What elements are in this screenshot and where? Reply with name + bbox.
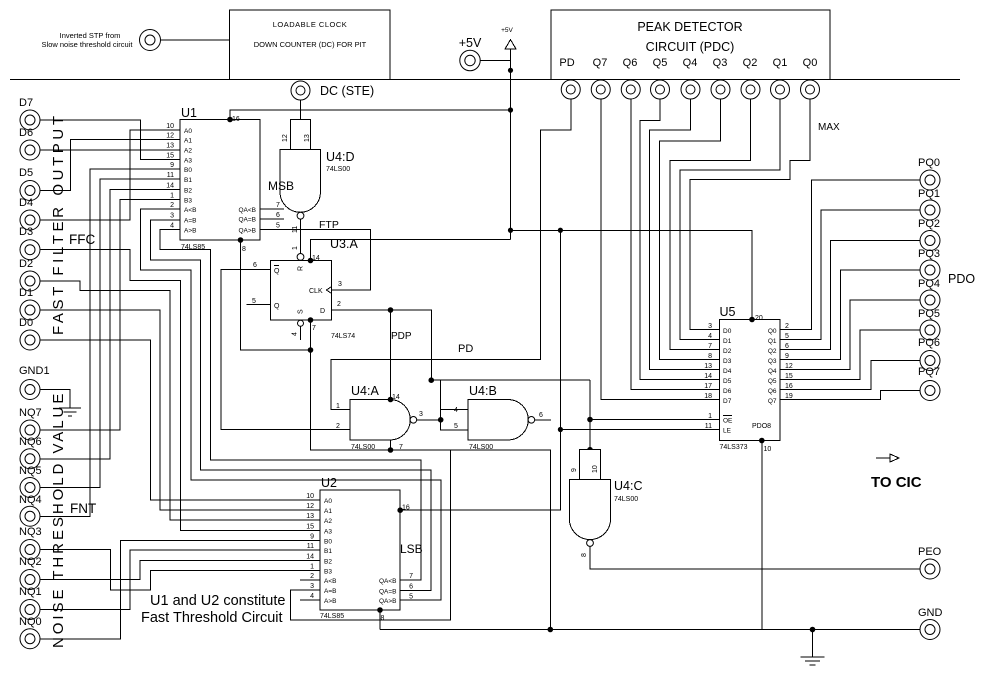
svg-text:DOWN COUNTER (DC) FOR PIT: DOWN COUNTER (DC) FOR PIT [254, 40, 367, 49]
junction dot LE branch [558, 427, 563, 432]
svg-text:74LS00: 74LS00 [469, 444, 493, 451]
connector PQ5 [918, 308, 940, 340]
svg-text:B2: B2 [184, 188, 192, 195]
gate U4:D NAND (vertical) [268, 120, 354, 220]
svg-text:2: 2 [170, 202, 174, 209]
svg-text:FTP: FTP [319, 219, 339, 231]
junction dot PDP top of pin4 riser [428, 377, 434, 383]
wire DC(STE) down to U4:D pins [300, 100, 302, 120]
wire D5 to U1 A1 [41, 140, 181, 191]
svg-text:PQ5: PQ5 [918, 308, 940, 320]
connector PQ1 [918, 188, 940, 220]
connector NQ4 [19, 494, 42, 526]
gate U4:B NAND [454, 384, 535, 451]
svg-text:+5V: +5V [501, 27, 513, 34]
svg-text:S: S [298, 309, 305, 314]
svg-text:13: 13 [304, 134, 311, 142]
pin numbers U2 right [409, 573, 413, 601]
wire D4 to U1 A0 [41, 130, 181, 220]
connector PD [561, 80, 580, 99]
power symbol +5V triangle [501, 27, 516, 49]
svg-text:2: 2 [785, 323, 789, 330]
pin numbers U1 left [166, 123, 174, 230]
wire U4:A pin7 to GND rail [390, 440, 392, 450]
wire U4:C output to PEO [590, 546, 920, 569]
svg-text:U1: U1 [181, 106, 197, 120]
svg-text:QA<B: QA<B [379, 578, 397, 585]
svg-text:4: 4 [170, 223, 174, 230]
svg-text:A>B: A>B [184, 228, 196, 235]
svg-text:4: 4 [708, 333, 712, 340]
wire OE line to U5 [590, 419, 720, 421]
svg-text:74LS00: 74LS00 [326, 166, 350, 173]
junction dot PDP at D row [388, 307, 394, 313]
svg-text:QA>B: QA>B [238, 228, 256, 235]
svg-text:6: 6 [253, 262, 257, 269]
svg-text:D2: D2 [723, 348, 732, 355]
svg-text:10: 10 [306, 493, 314, 500]
IC U2 74LS85 box [320, 476, 400, 620]
svg-text:A3: A3 [184, 158, 192, 165]
IC U1 74LS85 box [180, 106, 260, 251]
wire U5 Q5 to PQ5 [780, 330, 920, 380]
svg-text:PDP: PDP [391, 331, 412, 342]
svg-text:6: 6 [409, 584, 413, 591]
svg-text:LOADABLE CLOCK: LOADABLE CLOCK [273, 20, 348, 29]
connector +5V [459, 36, 482, 71]
junction dot U4:A output at U4:B pin5 riser [438, 417, 444, 423]
svg-text:D2: D2 [19, 258, 33, 270]
svg-text:D1: D1 [19, 287, 33, 299]
svg-text:A>B: A>B [324, 598, 336, 605]
svg-text:D3: D3 [723, 358, 732, 365]
connector GND1 [19, 365, 50, 400]
svg-text:A2: A2 [324, 518, 332, 525]
wire Q2 to U5 D2 [670, 99, 751, 350]
junction dot rail at x=560.4 [558, 228, 563, 233]
svg-text:NQ6: NQ6 [19, 436, 42, 448]
svg-text:A<B: A<B [324, 578, 336, 585]
wire D1 to U2 A1 [41, 310, 321, 510]
svg-text:DC (STE): DC (STE) [320, 84, 374, 98]
svg-text:5: 5 [409, 594, 413, 601]
wire +5V rail y=230.25 to U5 pin 20 [511, 230, 753, 319]
connector D6 [19, 127, 40, 160]
wire NQ5 to U1 B1 [41, 179, 181, 488]
svg-text:12: 12 [785, 363, 793, 370]
wire U5 Q1 to PQ1 [780, 210, 920, 340]
svg-text:1: 1 [292, 246, 299, 250]
svg-text:PD: PD [559, 57, 574, 69]
svg-text:QA<B: QA<B [238, 207, 256, 214]
svg-text:A1: A1 [184, 138, 192, 145]
wire U4:D pin 11 to U3:A R [292, 219, 301, 253]
svg-text:9: 9 [785, 353, 789, 360]
svg-text:8: 8 [381, 615, 385, 622]
svg-text:D7: D7 [19, 97, 33, 109]
svg-text:NQ7: NQ7 [19, 407, 42, 419]
connector NQ2 [19, 556, 42, 590]
connector GND [918, 607, 943, 640]
connector DC (STE) [291, 81, 374, 100]
svg-text:Q2: Q2 [743, 57, 758, 69]
stub U4:B output pin 6 [535, 412, 551, 420]
connector D4 [19, 197, 40, 230]
svg-text:74LS74: 74LS74 [331, 333, 355, 340]
svg-text:NQ4: NQ4 [19, 494, 42, 506]
svg-text:PQ1: PQ1 [918, 188, 940, 200]
wire Q1 to U5 D1 [680, 99, 780, 340]
wire U5 Q2 to PQ2 [780, 241, 920, 350]
pin 16 U2 dot and label [397, 505, 409, 514]
pin 14 U3:A dot [308, 255, 320, 263]
wire U5 Q3 to PQ3 [780, 270, 920, 360]
svg-text:U3.A: U3.A [330, 237, 358, 251]
svg-text:74LS85: 74LS85 [320, 613, 344, 620]
wire PDP net: U3:A D row with branches [331, 310, 590, 430]
svg-text:A0: A0 [184, 128, 192, 135]
svg-text:15: 15 [785, 373, 793, 380]
svg-text:D6: D6 [723, 388, 732, 395]
svg-text:Q5: Q5 [653, 57, 668, 69]
svg-text:10: 10 [764, 446, 772, 453]
svg-text:D6: D6 [19, 127, 33, 139]
wire Q7 to U5 D7 [601, 99, 720, 400]
svg-text:PQ6: PQ6 [918, 337, 940, 349]
connector PQ0 [918, 157, 940, 190]
svg-text:FNT: FNT [70, 501, 96, 516]
svg-text:1: 1 [310, 564, 314, 571]
svg-text:MSB: MSB [268, 179, 294, 193]
svg-text:NQ3: NQ3 [19, 526, 42, 538]
svg-text:6: 6 [276, 212, 280, 219]
wire +5V branch x=560.4 down to U2 pin16 with LE junction [400, 230, 560, 510]
svg-text:15: 15 [166, 153, 174, 160]
connector STP (Inverted STP input) [42, 30, 161, 51]
pin 16 U1 dot and label [227, 116, 240, 123]
wire U4:C input riser from PDP net [589, 380, 591, 450]
svg-text:Q7: Q7 [593, 57, 608, 69]
wire VCC rail y=110 from U1 pin16 to +5V [230, 110, 511, 120]
svg-text:14: 14 [312, 255, 320, 262]
svg-text:Q5: Q5 [768, 378, 777, 385]
connector PEO [918, 546, 942, 579]
svg-text:9: 9 [571, 468, 578, 472]
svg-text:PQ7: PQ7 [918, 366, 940, 378]
svg-text:6: 6 [539, 412, 543, 419]
svg-text:A3: A3 [324, 529, 332, 536]
svg-text:D1: D1 [723, 338, 732, 345]
svg-text:74LS00: 74LS00 [614, 496, 638, 503]
svg-text:6: 6 [785, 343, 789, 350]
svg-text:NQ1: NQ1 [19, 586, 42, 598]
svg-text:13: 13 [704, 363, 712, 370]
svg-text:PD: PD [458, 343, 473, 355]
svg-text:PDO8: PDO8 [752, 423, 771, 430]
svg-text:A=B: A=B [324, 588, 336, 595]
svg-text:1: 1 [336, 403, 340, 410]
connector Q6 [621, 80, 640, 99]
wire LE line to U5 [560, 429, 719, 431]
svg-text:B0: B0 [184, 167, 192, 174]
svg-text:QA>B: QA>B [379, 598, 397, 605]
wire D3 to U2 A3 [41, 250, 321, 531]
svg-text:4: 4 [292, 332, 299, 336]
svg-text:Q1: Q1 [768, 338, 777, 345]
svg-text:5: 5 [276, 223, 280, 230]
svg-text:U5: U5 [720, 305, 736, 319]
svg-text:Q6: Q6 [768, 388, 777, 395]
svg-text:3: 3 [419, 411, 423, 418]
svg-text:5: 5 [454, 423, 458, 430]
ground symbol at x=812.5 [801, 627, 825, 665]
wire cascade U1 A=B to U2 QA=B [150, 220, 431, 591]
svg-text:PEO: PEO [918, 546, 942, 558]
svg-text:3: 3 [310, 583, 314, 590]
svg-text:9: 9 [170, 162, 174, 169]
svg-text:A1: A1 [324, 508, 332, 515]
junction dot GND descent on GND rail [548, 627, 554, 633]
svg-text:7: 7 [312, 325, 316, 332]
svg-text:2: 2 [336, 423, 340, 430]
junction dot U3:A pin7 at y=350 [308, 347, 314, 353]
svg-text:PQ2: PQ2 [918, 218, 940, 230]
svg-text:PDO: PDO [948, 272, 975, 286]
gate U4:A NAND [336, 384, 423, 451]
svg-text:16: 16 [785, 383, 793, 390]
connector D5 [19, 167, 40, 201]
wire GND rail to GND connector [380, 629, 920, 631]
svg-text:14: 14 [166, 183, 174, 190]
svg-text:D0: D0 [19, 317, 33, 329]
svg-text:B0: B0 [324, 539, 332, 546]
svg-text:A2: A2 [184, 148, 192, 155]
svg-text:4: 4 [454, 407, 458, 414]
connector NQ3 [19, 526, 42, 560]
wire NQ6 to U1 B2 [41, 190, 181, 459]
svg-text:OE: OE [723, 418, 733, 425]
svg-text:2: 2 [337, 301, 341, 308]
connector NQ6 [19, 436, 42, 469]
wire Q0 to U5 D0 [690, 99, 810, 330]
connector D1 [19, 287, 40, 320]
pin 10 U5 with dot and wire to GND rail [759, 438, 771, 630]
svg-text:A=B: A=B [184, 218, 196, 225]
stub U2 A&gt;B pin 4 [300, 599, 320, 601]
wire Q5 to U5 D5 [640, 99, 720, 380]
wire NQ1 to U2 B1 [41, 550, 321, 609]
svg-text:14: 14 [306, 554, 314, 561]
wire STP to loadable clock box [161, 39, 230, 41]
wire NQ7 to U1 B3 [41, 200, 181, 431]
pin 14 U4:A dot [388, 397, 394, 403]
svg-text:13: 13 [306, 513, 314, 520]
svg-text:U4:A: U4:A [351, 384, 379, 398]
svg-text:Q4: Q4 [768, 368, 777, 375]
pin 5 label U3:A and stub [247, 298, 271, 305]
connector Q0 [801, 80, 820, 99]
pin 7 U3:A dot [308, 317, 316, 332]
svg-text:17: 17 [704, 383, 712, 390]
svg-text:CLK: CLK [309, 288, 323, 295]
svg-text:3: 3 [708, 323, 712, 330]
connector PQ4 [918, 278, 940, 310]
svg-text:U4:C: U4:C [614, 479, 642, 493]
wire U3:A pin14 to +5V [311, 240, 511, 261]
connector PQ3 [918, 248, 940, 280]
svg-text:74LS373: 74LS373 [720, 444, 748, 451]
svg-text:D5: D5 [19, 167, 33, 179]
flip-flop U3:A 74LS74 box [271, 237, 359, 340]
block PEAK DETECTOR CIRCUIT (PDC) box [551, 10, 830, 80]
GND net: U1 pin8 down, U3:A pin7, rail to x=550.3 down to GND rail [241, 240, 551, 630]
svg-text:D7: D7 [723, 398, 732, 405]
svg-text:B3: B3 [184, 198, 192, 205]
connector NQ7 [19, 407, 42, 440]
svg-text:Q3: Q3 [713, 57, 728, 69]
wire D2 to U2 A2 [41, 281, 321, 520]
svg-text:B2: B2 [324, 559, 332, 566]
svg-text:12: 12 [306, 503, 314, 510]
svg-text:15: 15 [306, 524, 314, 531]
svg-text:8: 8 [242, 246, 246, 253]
wire PD net: connector down, left, down to PD line, to U4:A pin1 [331, 99, 571, 410]
wire Q3 to U5 D3 [660, 99, 721, 360]
wire FTP net U1 QA&gt;B pin5 to U3:A CLK pin3 [260, 219, 371, 290]
svg-text:1: 1 [170, 193, 174, 200]
connector D2 [19, 258, 40, 291]
pin 20 U5 with dot [749, 315, 763, 322]
svg-text:LSB: LSB [400, 542, 423, 556]
wire NQ3 to U2 B3 [41, 550, 321, 590]
svg-text:Q1: Q1 [773, 57, 788, 69]
svg-text:D0: D0 [723, 328, 732, 335]
wire U5 Q4 to PQ4 [780, 300, 920, 370]
svg-text:D5: D5 [723, 378, 732, 385]
block LOADABLE CLOCK DOWN COUNTER box [230, 10, 391, 80]
ground symbol GND1 [41, 390, 82, 417]
svg-text:MAX: MAX [818, 122, 840, 133]
connector PQ7 [918, 366, 940, 401]
svg-text:NQ2: NQ2 [19, 556, 42, 568]
svg-text:Q: Q [274, 303, 280, 310]
svg-text:QA=B: QA=B [238, 217, 256, 224]
svg-text:NQ0: NQ0 [19, 616, 42, 628]
svg-text:FAST FILTER OUTPUT: FAST FILTER OUTPUT [50, 112, 67, 335]
svg-text:D4: D4 [19, 197, 33, 209]
junction dot +5V at y=70.3 [508, 68, 513, 73]
svg-text:U1 and U2 constitute: U1 and U2 constitute [150, 593, 285, 609]
svg-text:A<B: A<B [184, 207, 196, 214]
pin numbers U5 right [785, 323, 793, 400]
gate U4:C NAND (vertical) [569, 447, 642, 557]
svg-text:PQ3: PQ3 [918, 248, 940, 260]
svg-text:B3: B3 [324, 569, 332, 576]
svg-text:8: 8 [581, 553, 588, 557]
svg-text:7: 7 [409, 573, 413, 580]
wire U5 Q7 to PQ7 [780, 391, 920, 400]
svg-text:10: 10 [592, 465, 599, 473]
svg-text:1: 1 [708, 413, 712, 420]
stub U1 QA=B pin 6 [260, 212, 284, 219]
wire U2 A=B pin 3 to GND loop [290, 450, 450, 621]
svg-text:Q2: Q2 [768, 348, 777, 355]
svg-text:B1: B1 [184, 177, 192, 184]
svg-text:5: 5 [785, 333, 789, 340]
svg-text:U2: U2 [321, 476, 337, 490]
connector Q7 [591, 80, 610, 99]
svg-text:U4:D: U4:D [326, 150, 354, 164]
svg-text:Q: Q [274, 268, 280, 275]
svg-text:Q3: Q3 [768, 358, 777, 365]
svg-text:D4: D4 [723, 368, 732, 375]
bubble S input U3:A with stub [292, 320, 304, 340]
IC U5 74LS373 box [720, 305, 781, 451]
svg-text:14: 14 [704, 373, 712, 380]
svg-text:11: 11 [705, 423, 712, 430]
svg-text:Inverted STP from: Inverted STP from [60, 31, 121, 40]
svg-text:5: 5 [252, 298, 256, 305]
svg-text:12: 12 [166, 133, 174, 140]
svg-text:18: 18 [704, 393, 712, 400]
pin 8 U1 dot and label [238, 237, 246, 253]
wire cascade U1 A&gt;B to U2 QA&lt;B [160, 230, 421, 581]
svg-text:D3: D3 [19, 226, 33, 238]
wire D7 to U1 A3 [41, 120, 181, 160]
svg-text:19: 19 [785, 393, 793, 400]
svg-text:D: D [320, 308, 325, 315]
svg-text:3: 3 [338, 281, 342, 288]
wire NQ0 to U2 B0 [41, 541, 321, 639]
connector Q1 [771, 80, 790, 99]
pin 8 U2 dot and wire to GND rail [377, 607, 384, 629]
svg-text:20: 20 [755, 315, 763, 322]
svg-text:Fast Threshold Circuit: Fast Threshold Circuit [141, 610, 283, 626]
svg-text:9: 9 [310, 534, 314, 541]
svg-text:R: R [298, 266, 305, 271]
svg-text:FFC: FFC [69, 232, 95, 247]
svg-text:12: 12 [282, 134, 289, 142]
junction dot +5V at y=110 [508, 107, 513, 112]
svg-text:10: 10 [166, 123, 174, 130]
svg-text:11: 11 [292, 226, 299, 233]
svg-text:Q6: Q6 [623, 57, 638, 69]
svg-text:16: 16 [402, 505, 410, 512]
svg-text:Q0: Q0 [803, 57, 818, 69]
svg-text:PQ4: PQ4 [918, 278, 940, 290]
svg-text:PEAK DETECTOR: PEAK DETECTOR [637, 20, 742, 34]
wire Q4 to U5 D4 [650, 99, 720, 370]
connector PQ6 [918, 337, 940, 371]
junction dot OE branch [587, 417, 593, 423]
svg-text:GND: GND [918, 607, 943, 619]
svg-text:PQ0: PQ0 [918, 157, 940, 169]
junction dot +5V at y=230.25 [508, 228, 513, 233]
svg-text:Q0: Q0 [768, 328, 777, 335]
connector NQ1 [19, 586, 42, 620]
wire D6 to U1 A2 [41, 149, 181, 151]
svg-text:TO CIC: TO CIC [871, 474, 922, 491]
connector D7 [19, 97, 40, 130]
connector Q3 [711, 80, 730, 99]
svg-text:7: 7 [708, 343, 712, 350]
connector NQ5 [19, 465, 42, 498]
svg-text:11: 11 [307, 543, 314, 550]
svg-text:13: 13 [166, 143, 174, 150]
svg-text:3: 3 [170, 213, 174, 220]
wire cascade U1 A&lt;B to U2 QA&gt;B [141, 209, 441, 600]
pin numbers U5 left [704, 323, 712, 430]
